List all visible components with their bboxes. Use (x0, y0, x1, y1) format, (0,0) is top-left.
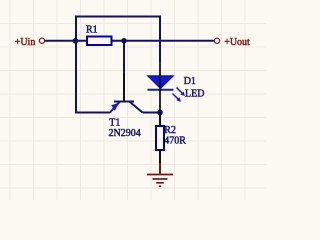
diode triangle (148, 76, 174, 89)
wire: left vertical / top wire / right vertical (net +Uin) (76, 17, 160, 113)
svg-text:2N2904: 2N2904 (109, 128, 141, 139)
junction dot C (collector/LED/R2 node) (157, 110, 163, 116)
svg-text:D1: D1 (184, 76, 196, 87)
svg-text:+Uout: +Uout (224, 37, 250, 48)
svg-text:470R: 470R (164, 135, 186, 146)
LED arrow 1 (177, 88, 186, 97)
emitter arrow (PNP, pointing to bar) (111, 103, 119, 111)
transistor T1 (PNP 2N2904) (110, 102, 143, 113)
emitter line (110, 102, 120, 113)
wire: R1 right to +Uout terminal (112, 40, 215, 42)
base bar (114, 101, 134, 103)
ground lead (159, 163, 161, 174)
wire: collector to LED/R2 node (143, 112, 161, 114)
pin: transistor base (black) (123, 73, 125, 101)
pin: LED anode+cathode (black, drawn over symbol) (159, 62, 161, 113)
junction dot A (+Uin/left vertical) (73, 38, 79, 44)
sheet background (0, 0, 266, 200)
cathode bar (148, 89, 174, 91)
svg-text:R1: R1 (86, 24, 98, 35)
svg-text:LED: LED (185, 89, 204, 100)
LED arrow 2 (173, 94, 182, 102)
wire: base node down from junction (123, 41, 125, 73)
resistor R1 (87, 37, 112, 46)
pin: R2 bottom (black) (159, 150, 161, 163)
terminal +Uout (214, 38, 219, 43)
terminal +Uin (39, 38, 44, 43)
svg-text:+Uin: +Uin (15, 37, 36, 48)
pin: R2 top (black) (159, 113, 161, 127)
svg-text:T1: T1 (109, 118, 120, 129)
collector line (130, 102, 143, 113)
junction dot B (base node) (121, 38, 127, 44)
wire: +Uin terminal to R1 left (45, 40, 87, 42)
ground symbol (147, 175, 173, 187)
